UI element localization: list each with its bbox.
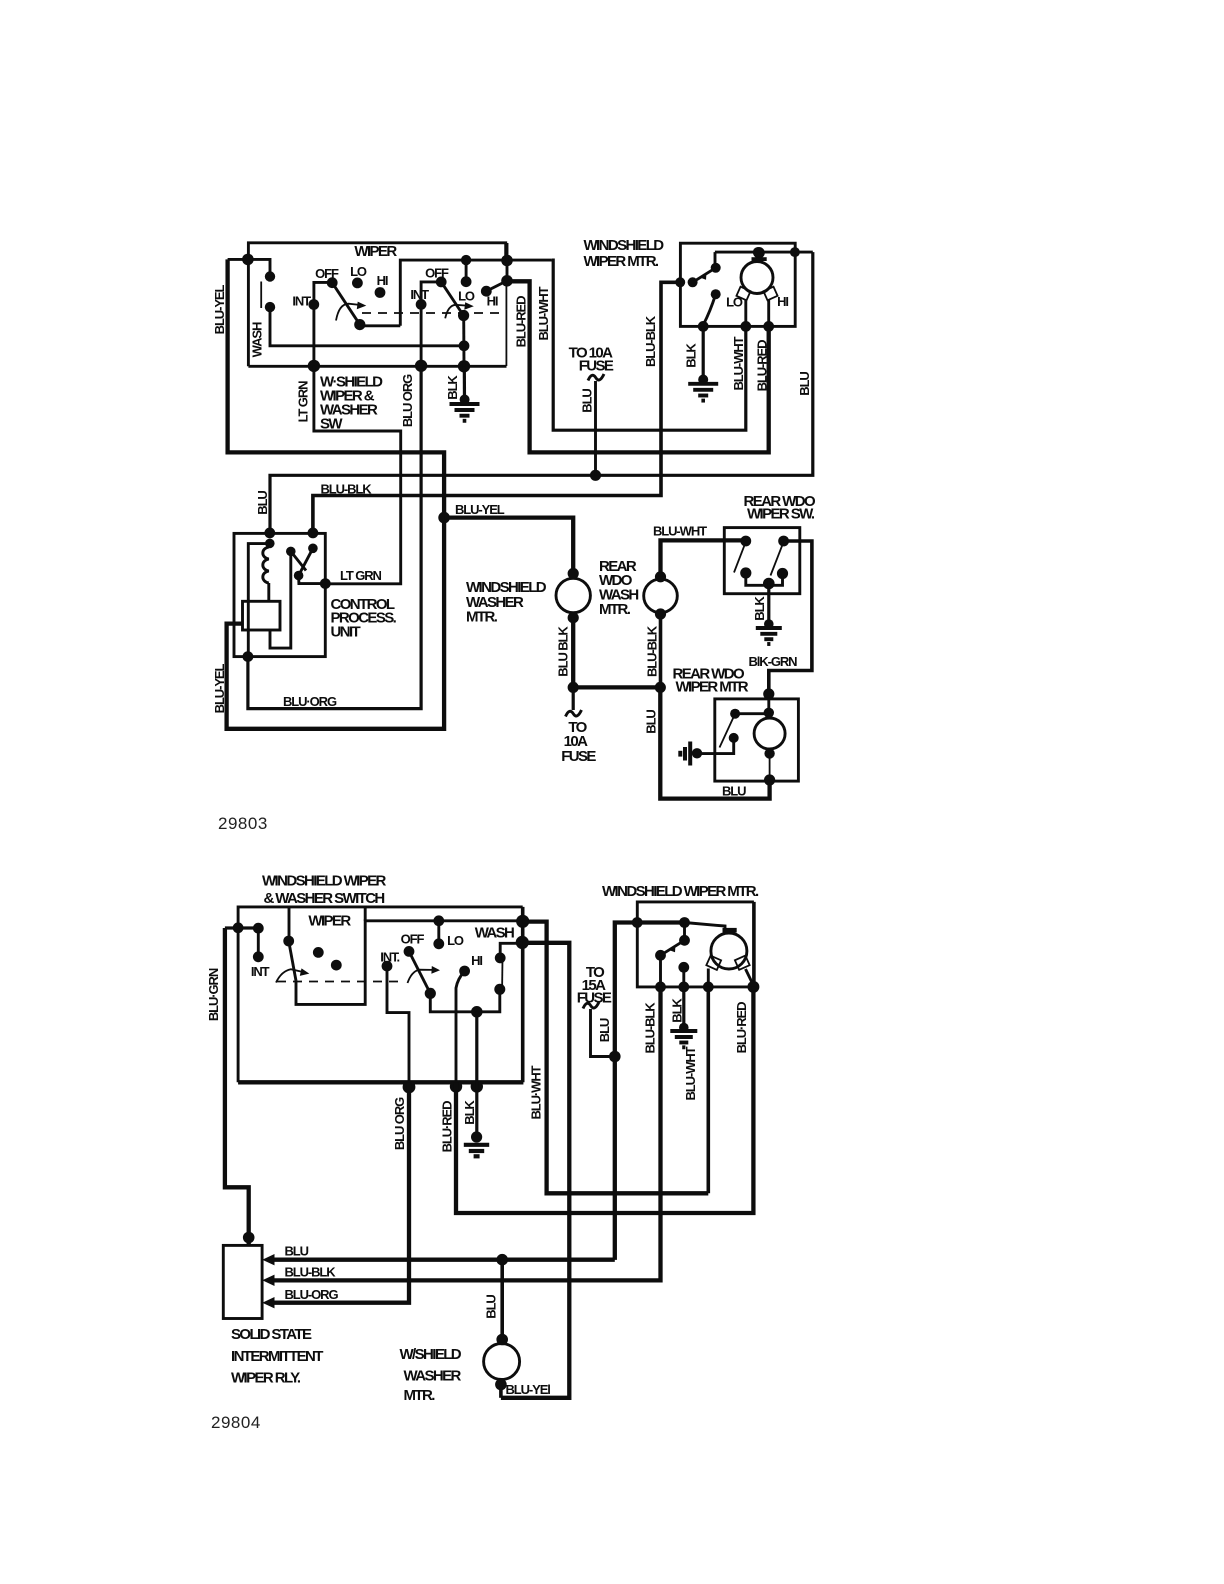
svg-text:WIPER MTR: WIPER MTR — [676, 679, 749, 696]
wire BLU-RED switch to motor HI — [507, 281, 769, 452]
contact OFF2 bottom — [404, 946, 415, 957]
dashed detent line — [362, 312, 503, 314]
rear wiper motor M4 armature — [754, 718, 785, 749]
wire relay BLU-ORG line — [273, 1082, 409, 1302]
node M6 top — [496, 1334, 508, 1346]
fuse F3 15A — [583, 1002, 599, 1009]
relay terminal arrow BLU — [262, 1254, 274, 1265]
svg-text:OFF: OFF — [315, 266, 339, 281]
wire BLU-BLK M5 down to relay — [659, 955, 662, 987]
svg-text:BLU: BLU — [285, 1244, 309, 1259]
node rear wash top — [655, 571, 666, 582]
svg-text:SW: SW — [320, 416, 343, 433]
contact INT sw1 — [308, 299, 319, 310]
case ground connector — [680, 742, 690, 766]
ground BLK motor — [698, 375, 708, 385]
wire WASH to washer motor — [501, 943, 569, 1398]
wire LO feed drop — [465, 260, 468, 282]
wire BLU-YEL entry to WASH contact — [228, 259, 270, 276]
wire washer BLU-BLK down — [571, 618, 575, 688]
node BLU-YEL washer branch — [438, 512, 450, 524]
wire BM to ground — [767, 581, 770, 626]
park contact upper M5 — [679, 935, 690, 946]
node BLU-ORG exit — [243, 651, 254, 662]
arm rear sw right — [771, 542, 784, 576]
windshield wiper motor M5 box — [637, 902, 754, 987]
svg-text:FUSE: FUSE — [561, 748, 596, 765]
wash switch blade — [260, 282, 262, 309]
node dot2 BLU-WHT junction — [501, 255, 513, 267]
svg-text:BLU·RED: BLU·RED — [440, 1101, 455, 1153]
wire LO drop — [437, 921, 440, 944]
node park riser feed — [679, 917, 690, 928]
node case ground — [692, 748, 702, 758]
node M4 box bottom — [764, 774, 775, 785]
washer motor M6 — [484, 1344, 520, 1380]
switch1 OFF feed — [314, 282, 332, 366]
motor M1 LO tab — [736, 287, 750, 301]
park switch arm — [693, 268, 716, 283]
contact rear sw TL — [740, 536, 751, 547]
ground BLK M5 — [679, 1023, 689, 1033]
node BLU-RED M5 corner — [747, 981, 759, 993]
park contact left M5 — [655, 950, 666, 961]
park contact lower — [711, 289, 721, 299]
wire INT1 riser — [257, 928, 260, 957]
wire OFF1 riser to box top — [288, 907, 291, 941]
svg-text:BLU: BLU — [797, 372, 812, 396]
node BLU-RED at box bottom — [450, 1080, 462, 1092]
contact LO sw2 upper — [461, 276, 472, 287]
svg-text:HI: HI — [777, 294, 788, 309]
svg-text:LO: LO — [350, 264, 367, 279]
contact relay C — [294, 571, 304, 581]
node dotE — [516, 915, 529, 928]
w-shield wiper & washer switch SW1 box — [248, 243, 506, 366]
svg-text:BLU: BLU — [644, 710, 659, 734]
svg-text:BLU: BLU — [722, 784, 746, 799]
svg-text:BLK: BLK — [684, 343, 699, 368]
svg-text:LO: LO — [726, 295, 743, 310]
svg-text:BLU·WHT: BLU·WHT — [529, 1065, 544, 1119]
park contact M4 feed — [730, 709, 740, 719]
contact HI2 bottom — [459, 966, 470, 977]
svg-text:HI: HI — [487, 294, 498, 309]
node BLU into unit — [264, 528, 275, 539]
contact OFF sw1 — [327, 277, 338, 288]
contact WASH top — [265, 271, 275, 281]
svg-text:BLU-YEL: BLU-YEL — [455, 502, 505, 517]
svg-text:HI: HI — [377, 273, 388, 288]
wire BLK to ground — [463, 366, 466, 401]
svg-text:29804: 29804 — [211, 1413, 261, 1432]
svg-text:SOLID STATE: SOLID STATE — [231, 1326, 312, 1343]
wire relay BLU line — [273, 1258, 615, 1262]
svg-text:29803: 29803 — [218, 814, 268, 833]
contact LO bottom sw2 — [433, 938, 444, 949]
arrow rotation sw2 bottom — [408, 970, 433, 983]
node BLK motor — [698, 321, 709, 332]
svg-text:WINDSHIELD WIPER: WINDSHIELD WIPER — [262, 873, 386, 890]
node motor M4 top — [764, 708, 774, 718]
resistor block R1 — [243, 601, 281, 630]
svg-text:WIPER: WIPER — [354, 243, 397, 260]
svg-text:BLU: BLU — [580, 389, 595, 413]
svg-text:W/SHIELD: W/SHIELD — [400, 1346, 462, 1363]
wire BLU rear down to wiper motor — [660, 687, 769, 798]
ground BLK switch — [460, 395, 470, 405]
control process unit U1 box — [234, 533, 325, 656]
node relay feed — [243, 1232, 255, 1244]
svg-text:LO: LO — [458, 289, 475, 304]
wire HI2 to BLU-RED — [456, 971, 465, 1082]
svg-text:MTR.: MTR. — [404, 1387, 436, 1404]
contact BLU-ORG at box bottom — [415, 360, 427, 372]
svg-text:BLU: BLU — [597, 1018, 612, 1042]
wire BLK motor to ground — [702, 326, 705, 381]
motor M1 HI tab — [763, 287, 777, 301]
wire BLU-RED M5 to switch — [456, 987, 753, 1213]
wire BLU-WHT no2 M5 down — [706, 987, 710, 1193]
svg-text:WINDSHIELD WIPER MTR.: WINDSHIELD WIPER MTR. — [602, 883, 759, 900]
svg-text:HI: HI — [471, 953, 482, 968]
dashed detent line bottom — [277, 981, 398, 983]
wire BLU-YEL left loop — [227, 259, 445, 728]
motor M5 top terminal — [723, 928, 737, 933]
wire arm1 end to feed — [360, 324, 401, 327]
contact rear sw TR — [778, 536, 789, 547]
svg-text:INT: INT — [292, 294, 311, 309]
arrow rotation sw1 bottom — [276, 969, 303, 982]
node BLU-YEL at box edge — [242, 254, 254, 266]
svg-text:BLU-ORG: BLU-ORG — [285, 1287, 339, 1302]
svg-text:WASH: WASH — [250, 322, 265, 357]
node motor top — [753, 247, 763, 257]
wire BLU-WHT rear wash to switch — [661, 540, 746, 576]
svg-text:BLK: BLK — [752, 596, 767, 621]
node M4 bottom — [764, 748, 774, 758]
node BLU-ORG at box bottom — [403, 1081, 416, 1094]
switch2 OFF feed — [421, 282, 441, 366]
rear wdo wash motor M3 — [644, 579, 678, 613]
svg-text:& WASHER SWITCH: & WASHER SWITCH — [264, 890, 385, 907]
svg-text:MTR.: MTR. — [466, 609, 498, 626]
contact rear sw BM — [763, 578, 775, 590]
svg-text:LT GRN: LT GRN — [340, 568, 382, 583]
node box edge right — [790, 247, 800, 257]
contact relay A — [286, 547, 296, 557]
svg-text:WASH: WASH — [475, 925, 514, 942]
svg-text:BLU-RED: BLU-RED — [514, 296, 529, 348]
wire rear wash BLU-BLK down — [659, 614, 663, 687]
svg-text:INT.: INT. — [380, 950, 399, 965]
ground BLK bottom switch — [471, 1131, 482, 1142]
svg-text:WIPER SW.: WIPER SW. — [747, 506, 815, 523]
svg-text:BLU-WHT: BLU-WHT — [536, 286, 551, 340]
svg-text:WASHER: WASHER — [404, 1368, 462, 1385]
svg-text:LT GRN: LT GRN — [296, 381, 311, 423]
wire feed to motor hat — [685, 923, 726, 930]
fuse F2 10A — [566, 710, 582, 717]
node LO sw2 feed upper — [461, 255, 471, 265]
wire BLU-GRN to relay — [225, 928, 249, 1245]
ground rear switch — [764, 619, 774, 629]
wire junction to rear BLU — [573, 685, 660, 689]
contact HI sw1 — [375, 287, 386, 298]
contact INT sw2 — [416, 299, 427, 310]
wire BLU feed wiper motor — [615, 923, 685, 1260]
wire arm1 feed route — [296, 921, 523, 1005]
wire BLU-WHT switch to motor LO — [552, 260, 746, 430]
contact BLK at box bottom — [458, 360, 470, 372]
contact WASH upper — [495, 953, 506, 964]
node washer fuse junction — [568, 682, 579, 693]
park switch entry dots — [675, 277, 685, 287]
svg-text:INT: INT — [410, 287, 429, 302]
node coil top — [265, 539, 275, 549]
wire WASH to BLK node — [270, 307, 464, 346]
wire fuse3 to BLU — [591, 1009, 615, 1057]
svg-text:WINDSHIELD: WINDSHIELD — [584, 237, 665, 254]
node BLK junction dotG — [471, 1006, 483, 1018]
wire motor top feed — [715, 251, 813, 254]
node INT1 feed — [253, 923, 264, 934]
wire BLU-YEL to washer motor — [444, 518, 573, 571]
svg-text:BLU-WHT: BLU-WHT — [653, 524, 707, 539]
node arm1 end — [354, 319, 365, 330]
wire to fuse 2 — [572, 687, 575, 710]
svg-text:WIPER RLY.: WIPER RLY. — [231, 1370, 301, 1387]
svg-text:BLU-BLK: BLU-BLK — [643, 1002, 658, 1054]
contact WASH lower — [494, 984, 505, 995]
svg-text:BLU·ORG: BLU·ORG — [283, 694, 337, 709]
svg-text:BLU: BLU — [255, 491, 270, 515]
windshield wiper motor box — [680, 243, 795, 326]
svg-text:MTR.: MTR. — [599, 601, 631, 618]
svg-text:BLK: BLK — [462, 1100, 477, 1125]
node washer top — [568, 568, 579, 579]
svg-text:BLU-YEL: BLU-YEL — [212, 285, 227, 335]
wire LO tab down — [744, 299, 747, 326]
contact WASH bottom — [265, 302, 275, 312]
node BLU-WHT M5 — [703, 982, 714, 993]
contact LT GRN at box bottom — [308, 360, 320, 372]
svg-text:BLU ORG: BLU ORG — [392, 1097, 407, 1150]
wire inner partition riser — [364, 907, 367, 921]
node BLK at box bottom — [471, 1080, 483, 1092]
switch arm sw1 — [332, 283, 360, 325]
svg-text:BLU-BLK: BLU-BLK — [643, 315, 658, 367]
svg-text:BLU-RED: BLU-RED — [754, 340, 769, 392]
arrow rotation sw2 — [445, 305, 467, 319]
park contact upper — [711, 263, 721, 273]
contact LO sw1 — [352, 278, 363, 289]
wire LT GRN routing around label box — [314, 366, 401, 584]
wire BLU right side motor — [270, 252, 813, 530]
rear wdo wiper motor box — [715, 699, 799, 781]
wash blade bottom — [501, 959, 503, 990]
node box left edge feed — [632, 917, 643, 928]
motor M5 armature — [711, 933, 747, 969]
svg-text:BLU-BLK: BLU-BLK — [321, 482, 373, 497]
svg-text:OFF: OFF — [425, 266, 449, 281]
svg-text:BLU BLK: BLU BLK — [556, 626, 571, 677]
wire HI sw2 to dot3 — [486, 282, 505, 292]
node dot3 BLU-RED junction — [501, 275, 513, 287]
svg-text:UNIT: UNIT — [331, 624, 361, 641]
wire washer M6 feed — [500, 1260, 504, 1339]
node rear wash bottom — [655, 608, 666, 619]
wire park lower to case ground — [699, 738, 734, 754]
solid state intermittent wiper relay box — [223, 1245, 262, 1318]
wire BL BR to BM — [746, 573, 783, 585]
svg-text:BlK-GRN: BlK-GRN — [749, 654, 798, 669]
svg-text:BLU·RED: BLU·RED — [734, 1002, 749, 1054]
rear wdo wiper switch box — [724, 528, 800, 594]
svg-text:BLU-BLK: BLU-BLK — [645, 625, 660, 677]
coil L1 — [263, 547, 269, 583]
wire arm2 to wash contact — [430, 989, 500, 1012]
park arm M5 — [661, 940, 685, 955]
wire WASH upper to dotF — [500, 943, 521, 958]
wire HI tab down — [767, 299, 770, 326]
wire BLU-BLK motor to control unit — [313, 282, 681, 530]
svg-text:BLK: BLK — [670, 998, 685, 1023]
svg-text:BLU-WHT: BLU-WHT — [731, 336, 746, 390]
motor M5 LO tab — [706, 956, 721, 970]
park arm M4 — [720, 714, 736, 748]
contact LO sw2 lower — [458, 310, 469, 321]
svg-text:BLU-YEl: BLU-YEl — [506, 1382, 551, 1397]
contact HI sw2 — [481, 286, 492, 297]
wire M6 bottom to BLU-YEL — [499, 1385, 503, 1398]
svg-text:BLU-WHT: BLU-WHT — [683, 1046, 698, 1100]
node fuse3 junction — [609, 1051, 621, 1063]
wire BLU-ORG switch to control unit — [248, 366, 421, 709]
wire fuse to BLU line — [594, 381, 597, 475]
svg-text:INT: INT — [251, 964, 270, 979]
svg-text:BLU-BLK: BLU-BLK — [285, 1265, 337, 1280]
node rear BLU junction — [655, 682, 666, 693]
contact INT1 — [253, 951, 264, 962]
svg-text:BLU ORG: BLU ORG — [400, 374, 415, 427]
switch arm sw2 — [441, 282, 463, 316]
node LO feed top — [433, 915, 444, 926]
svg-text:FUSE: FUSE — [579, 358, 614, 375]
svg-text:FUSE: FUSE — [577, 990, 612, 1007]
wire HI tab to corner — [746, 969, 754, 985]
motor M1 armature — [741, 262, 773, 294]
park riser M5 — [683, 923, 686, 941]
relay terminal arrow BLU-BLK — [262, 1275, 274, 1286]
svg-text:WIPER MTR.: WIPER MTR. — [584, 253, 659, 270]
node at box edge — [233, 922, 244, 933]
node washer bottom — [568, 612, 579, 623]
svg-text:OFF: OFF — [401, 932, 425, 947]
park contact M4 lower — [729, 733, 739, 743]
node BLK M5 — [678, 982, 689, 993]
contact INT2 bottom — [382, 961, 393, 972]
contact relay B — [308, 544, 318, 554]
windshield wiper & washer switch SW2 box — [238, 907, 523, 1082]
switch arm sw1 bottom — [289, 941, 296, 981]
node BLU-WHT motor — [740, 321, 751, 332]
wire M4 bottom to box — [769, 749, 771, 781]
windshield washer motor M2 — [556, 578, 590, 612]
contact OFF sw2 — [436, 277, 447, 288]
wire park upper to feed — [714, 252, 717, 268]
node dotF — [516, 936, 529, 949]
wire dot2 to dot3 — [506, 243, 509, 281]
contact OFF1 — [283, 936, 294, 947]
relay switch X blades — [291, 551, 306, 570]
svg-text:WIPER: WIPER — [308, 913, 351, 930]
contact rear sw BR — [777, 568, 788, 579]
wire BLK-GRN rear sw to motor — [769, 541, 812, 697]
node M6 bottom — [495, 1379, 507, 1391]
node washer feed junction — [496, 1254, 508, 1266]
node BLU-RED motor — [763, 321, 774, 332]
wire BLU-WHT no1 from dotE — [523, 922, 709, 1194]
wire park feed — [735, 712, 769, 715]
node BLU-BLK M5 — [655, 982, 666, 993]
svg-text:LO: LO — [447, 933, 464, 948]
park contact lower M5 — [678, 962, 689, 973]
motor M5 HI tab — [735, 956, 750, 970]
node: feed line y=260 — [400, 260, 552, 326]
wire contact C to LT GRN exit — [299, 576, 326, 584]
motor M1 top terminal — [753, 247, 765, 259]
wire BLU-GRN entry — [225, 926, 263, 929]
fuse F1 10A — [588, 374, 604, 381]
arrow rotation sw1 — [336, 304, 360, 321]
wire INT2 to BLU-ORG — [387, 966, 409, 1082]
svg-text:INTERMITTENT: INTERMITTENT — [231, 1348, 323, 1365]
wire BLK M5 to ground — [682, 987, 685, 1028]
svg-text:BLU: BLU — [484, 1295, 499, 1319]
relay terminal arrow BLU-ORG — [262, 1297, 274, 1308]
node BLK-GRN above motor — [763, 688, 774, 699]
svg-text:BLU-YEL: BLU-YEL — [212, 664, 227, 714]
wire LO sw2 to BLK — [462, 316, 465, 367]
node arm2 end — [425, 988, 436, 999]
wire BLK dotG through box — [475, 1012, 478, 1136]
wire park lower to BLK — [682, 967, 685, 987]
contact rear sw BL — [740, 567, 751, 578]
node fuse BLU junction — [590, 470, 601, 481]
wire coil to resistor — [267, 583, 270, 601]
wire park lower to BLK — [703, 294, 715, 324]
contact mid dots sw1 — [313, 947, 324, 958]
svg-text:BLU·GRN: BLU·GRN — [206, 968, 221, 1021]
node BLK wash junction — [459, 340, 470, 351]
arm rear sw left — [734, 542, 746, 573]
node LT GRN exit — [320, 578, 331, 589]
svg-text:BLK: BLK — [445, 375, 460, 400]
switch arm sw2 bottom — [409, 951, 430, 993]
node BLU-BLK into unit — [308, 528, 319, 539]
wire resistor to relay contact — [270, 551, 291, 648]
wire LO tab to box — [707, 969, 710, 987]
wire unit internal bypass — [248, 544, 269, 655]
wire M4 top feed — [767, 699, 770, 718]
